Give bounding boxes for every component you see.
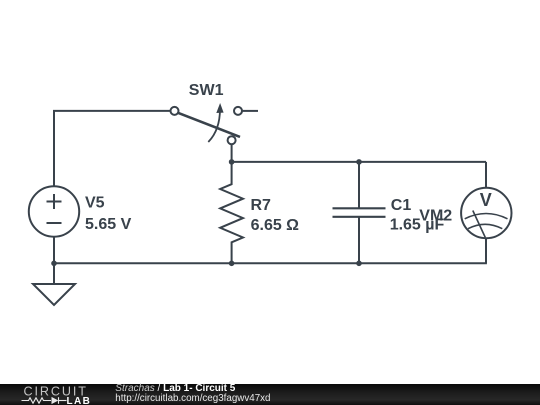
node junction at V5 bottom / ground [51,261,57,267]
capacitor C1 [333,162,386,263]
wire top-left vertical (V5 top to rail) [53,111,55,187]
node junction at SW1 throw / R7 top [229,159,235,165]
svg-text:V5: V5 [85,194,105,211]
wire right vertical top [485,162,487,188]
svg-text:C1: C1 [391,197,412,214]
switch throw upper [234,107,242,115]
node junction at R7 bottom [229,261,235,267]
wire lower throw to mid rail [231,144,233,162]
svg-text:SW1: SW1 [189,82,224,99]
svg-text:LAB: LAB [67,396,92,405]
voltmeter VM2 [461,188,511,238]
node junction at C1 top [356,159,362,165]
svg-text:R7: R7 [251,197,272,214]
switch SW1 [171,103,243,144]
wire top horizontal rail [53,110,171,112]
logo wire [22,397,67,404]
svg-text:5.65 V: 5.65 V [85,216,132,233]
ground [33,263,75,305]
wire V5 bottom lead [53,237,55,264]
footer bar [0,384,540,405]
footer credit text [115,384,235,394]
wire bottom rail [54,262,487,264]
voltage source V5 [29,186,79,236]
resistor R7 [220,162,243,263]
svg-text:VM2: VM2 [419,208,452,225]
svg-text:6.65 Ω: 6.65 Ω [251,217,300,234]
switch arrow [208,109,220,142]
switch pin left [171,107,179,115]
wire middle rail [232,161,486,163]
circuitlab logo [0,384,110,405]
node junction at C1 bottom [356,261,362,267]
svg-text:V: V [480,190,492,210]
wire stub right of upper throw [243,110,259,112]
logo diode [52,397,59,404]
wire right vertical bottom [485,238,487,263]
switch throw lower [228,136,236,144]
switch blade [177,112,240,136]
